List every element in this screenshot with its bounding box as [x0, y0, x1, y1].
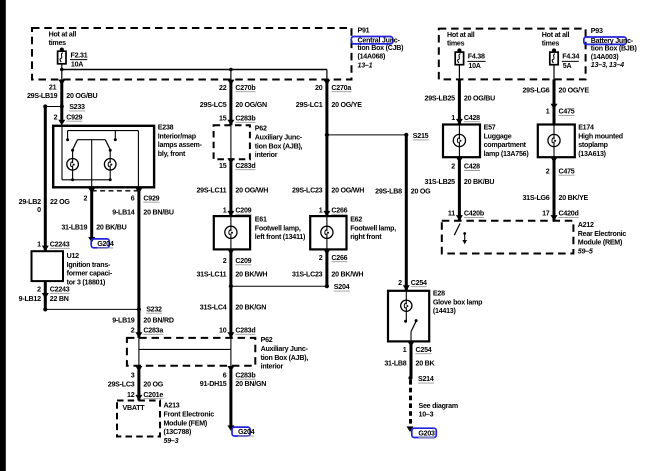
- svg-text:C2243: C2243: [50, 240, 70, 248]
- svg-text:12: 12: [127, 391, 135, 399]
- svg-text:VBATT: VBATT: [123, 404, 146, 412]
- svg-text:29S-LB19: 29S-LB19: [27, 92, 58, 100]
- connector C283d pin 15: [219, 158, 255, 170]
- svg-text:Auxiliary Junc-: Auxiliary Junc-: [255, 134, 303, 142]
- connector C201e pin 12: [127, 391, 163, 401]
- svg-text:A213: A213: [164, 402, 180, 410]
- svg-text:2: 2: [398, 279, 402, 287]
- svg-text:21: 21: [49, 84, 57, 92]
- svg-text:C283b: C283b: [235, 371, 256, 379]
- svg-text:20 OG/WH: 20 OG/WH: [331, 186, 364, 194]
- lamp E62 footwell lamp right front box: [310, 216, 346, 249]
- splice S215 wire to glove box branch: [325, 132, 429, 140]
- svg-text:Footwell lamp,: Footwell lamp,: [350, 224, 396, 232]
- dashed continuation wire to G203: [409, 380, 412, 426]
- svg-text:compartment: compartment: [484, 141, 527, 149]
- svg-text:15: 15: [219, 114, 227, 122]
- svg-text:Footwell lamp,: Footwell lamp,: [255, 224, 301, 232]
- svg-text:20 OG/YE: 20 OG/YE: [331, 101, 362, 109]
- svg-text:times: times: [542, 40, 560, 48]
- svg-text:3: 3: [131, 371, 135, 379]
- module A212 Rear Electronic Module dashed box: [442, 221, 574, 254]
- svg-text:interior: interior: [255, 151, 278, 159]
- svg-text:9-LB12: 9-LB12: [19, 295, 41, 303]
- pin 2 of E238: [83, 188, 95, 202]
- svg-text:C283d: C283d: [235, 162, 255, 170]
- svg-text:22 BN: 22 BN: [50, 295, 69, 303]
- svg-text:bly, front: bly, front: [158, 150, 186, 158]
- connector C929 pin 2 (E238 entry): [54, 113, 83, 125]
- label E57 Luggage compartment lamp: [484, 124, 530, 158]
- label P62 Auxiliary Junction Box lower: [261, 336, 309, 370]
- svg-text:20 OG/GN: 20 OG/GN: [235, 101, 267, 109]
- svg-text:20 OG/WH: 20 OG/WH: [235, 186, 268, 194]
- wire 29S-LC1 20 OG/YE: [296, 80, 362, 216]
- svg-text:P62: P62: [255, 125, 267, 133]
- bus wire inside CJB: [62, 69, 327, 71]
- A212 internal switch for luggage lamp: [454, 224, 460, 236]
- svg-text:1: 1: [546, 108, 550, 116]
- svg-text:29-LB2: 29-LB2: [19, 198, 41, 206]
- label A213 Front Electronic Module FEM: [164, 402, 215, 445]
- svg-text:C201e: C201e: [143, 391, 163, 399]
- wire 29S-LB25 20 OG/BU: [425, 79, 496, 124]
- connector C254 pin 2: [398, 279, 427, 291]
- svg-text:29S-LC5: 29S-LC5: [200, 101, 227, 109]
- connector C266 pin 1: [319, 206, 348, 216]
- E238 common bar and center wire to pin 2: [78, 140, 106, 188]
- svg-text:20 OG/YE: 20 OG/YE: [559, 86, 590, 94]
- wire 91-DH15 20 BN/GN: [200, 366, 266, 426]
- label P62 Auxiliary Junction Box upper: [255, 125, 303, 159]
- svg-text:S232: S232: [146, 305, 162, 313]
- svg-text:10–3: 10–3: [419, 411, 434, 419]
- wire 31S-LB25 20 BK/BU: [425, 157, 495, 221]
- E238 switch contact right: [114, 131, 117, 142]
- svg-text:31S-LC23: 31S-LC23: [292, 270, 323, 278]
- splice S232: [137, 305, 162, 313]
- fuse F4.38 10A: [447, 31, 486, 70]
- svg-text:Hot at all: Hot at all: [447, 31, 475, 39]
- svg-text:1: 1: [451, 114, 455, 122]
- svg-text:E61: E61: [255, 216, 267, 224]
- svg-text:P93: P93: [591, 27, 603, 35]
- label E28 Glove box lamp: [433, 290, 483, 316]
- E238 switch contact left: [66, 131, 69, 142]
- svg-text:right front: right front: [350, 233, 382, 241]
- svg-text:tion Box (BJB): tion Box (BJB): [591, 45, 638, 53]
- wire 9-LB14 20 BN/BU from E238 pin 6: [112, 187, 174, 338]
- svg-text:lamp (13A756): lamp (13A756): [484, 150, 530, 158]
- wire from fuse F2.31 to bus junction: [61, 63, 63, 79]
- svg-text:29S-LC1: 29S-LC1: [296, 101, 323, 109]
- wire drop to pin 20: [326, 70, 328, 81]
- connector C929 dashed boundary under E238: [92, 190, 142, 192]
- svg-text:59–3: 59–3: [164, 437, 179, 445]
- svg-text:1: 1: [319, 206, 323, 214]
- svg-text:C475: C475: [559, 167, 575, 175]
- svg-text:31S-LC11: 31S-LC11: [196, 270, 226, 278]
- node bus junction to pin 22: [229, 68, 233, 72]
- pin 20 of CJB connector C270a: [315, 80, 351, 92]
- svg-text:C283d: C283d: [235, 326, 255, 334]
- lamp E28 glove box lamp with switch: [388, 291, 429, 342]
- connector C420d pin 17: [542, 210, 578, 221]
- svg-text:U12: U12: [67, 252, 80, 260]
- svg-text:E62: E62: [350, 216, 362, 224]
- splice S233: [43, 103, 85, 111]
- svg-text:1: 1: [403, 346, 407, 354]
- svg-text:C254: C254: [411, 279, 427, 287]
- ground G204 (E238): [88, 237, 114, 248]
- svg-text:20 BK/BU: 20 BK/BU: [464, 178, 494, 186]
- module A213 Front Electronic Module dashed box with VBATT: [117, 401, 160, 437]
- svg-text:9-LB14: 9-LB14: [112, 209, 134, 217]
- svg-text:20 BK/WH: 20 BK/WH: [331, 270, 363, 278]
- svg-text:59–5: 59–5: [578, 248, 594, 256]
- wire from U12 to splice S232: [43, 307, 139, 311]
- svg-text:C254: C254: [416, 346, 432, 354]
- junction box P62 Auxiliary Junction Box interior (upper) dashed outline: [214, 125, 250, 159]
- svg-text:Glove box lamp: Glove box lamp: [433, 298, 483, 306]
- svg-text:2: 2: [223, 257, 227, 265]
- junction box P91 Central Junction Box (CJB) dashed outline: [32, 28, 352, 80]
- ground G203: [407, 426, 437, 437]
- svg-text:tor 3 (18801): tor 3 (18801): [67, 278, 106, 286]
- svg-text:20 BK/BU: 20 BK/BU: [96, 223, 126, 231]
- svg-text:C266: C266: [331, 206, 347, 214]
- svg-text:13–3, 13–4: 13–3, 13–4: [591, 61, 624, 69]
- svg-text:10A: 10A: [468, 62, 480, 70]
- svg-text:20 BK/GN: 20 BK/GN: [235, 303, 266, 311]
- svg-text:(14A068): (14A068): [358, 53, 386, 61]
- left black border bar: [0, 0, 6, 471]
- svg-text:31S-LG6: 31S-LG6: [522, 194, 549, 202]
- label A212 Rear Electronic Module REM: [578, 221, 627, 255]
- note see diagram 10-3: [419, 402, 458, 419]
- svg-text:tion Box (CJB): tion Box (CJB): [358, 44, 405, 52]
- A212 internal control arrow: [462, 232, 467, 244]
- wire 29S-LB8 20 OG: [375, 135, 431, 291]
- svg-text:1: 1: [223, 206, 227, 214]
- connector C283a pin 2: [131, 326, 164, 338]
- connector C475 pin 2: [546, 157, 575, 175]
- splice S214: [408, 375, 434, 383]
- svg-text:29S-LB8: 29S-LB8: [375, 188, 402, 196]
- svg-text:F2.31: F2.31: [71, 51, 88, 59]
- svg-text:20 BN/RD: 20 BN/RD: [143, 317, 173, 325]
- lamp E61 footwell lamp left front box: [214, 216, 250, 249]
- svg-text:tion Box (AJB),: tion Box (AJB),: [255, 142, 303, 150]
- svg-text:interior: interior: [261, 363, 284, 371]
- label U12 ignition transformer capacitor 3: [67, 252, 113, 286]
- svg-text:6: 6: [131, 194, 135, 202]
- svg-text:20 BK: 20 BK: [416, 359, 436, 367]
- svg-text:2: 2: [546, 167, 550, 175]
- svg-text:E28: E28: [433, 290, 445, 298]
- svg-text:31-LB8: 31-LB8: [384, 359, 406, 367]
- svg-text:S233: S233: [69, 103, 85, 111]
- svg-text:Module (FEM): Module (FEM): [164, 419, 208, 427]
- lamp E57 luggage compartment lamp box: [443, 125, 480, 158]
- svg-text:2: 2: [83, 194, 87, 202]
- svg-text:Luggage: Luggage: [484, 132, 512, 140]
- svg-text:2: 2: [451, 163, 455, 171]
- connector C2243 pin 1: [37, 240, 70, 251]
- pin 6 of E238 connector C929: [131, 188, 160, 202]
- svg-text:C420d: C420d: [559, 210, 579, 218]
- map lamp right in E238: [104, 150, 116, 181]
- connector C209 pin 2: [223, 249, 252, 265]
- capacitor U12 ignition transformer capacitor box: [32, 251, 64, 281]
- svg-text:C929: C929: [143, 194, 159, 202]
- label E238 interior/map lamps assembly front: [158, 124, 203, 158]
- svg-text:0: 0: [37, 206, 41, 214]
- svg-text:(13A613): (13A613): [578, 150, 606, 158]
- wire 31S-LC11 20 BK/WH: [196, 249, 267, 338]
- svg-text:Rear Electronic: Rear Electronic: [578, 230, 627, 238]
- svg-text:G203: G203: [418, 430, 435, 438]
- svg-text:(14A003): (14A003): [591, 53, 619, 61]
- svg-text:2: 2: [319, 254, 323, 262]
- svg-text:C283b: C283b: [235, 114, 256, 122]
- connector C2243 pin 2: [37, 285, 70, 298]
- label E62 Footwell lamp right front: [350, 216, 396, 242]
- junction box P62 Auxiliary Junction Box interior (lower) dashed outline: [127, 338, 255, 366]
- svg-text:Module (REM): Module (REM): [578, 239, 623, 247]
- svg-text:13–1: 13–1: [358, 61, 373, 69]
- E238 internal feed wire left side and bottom rail: [62, 126, 110, 180]
- svg-text:20 OG/BU: 20 OG/BU: [66, 92, 97, 100]
- svg-text:C475: C475: [559, 108, 575, 116]
- svg-text:A212: A212: [578, 221, 594, 229]
- svg-text:G204: G204: [238, 428, 255, 436]
- svg-text:20 BN/GN: 20 BN/GN: [235, 380, 266, 388]
- wire 29S-LC3 20 OG: [108, 366, 164, 401]
- svg-text:20 OG/BU: 20 OG/BU: [464, 94, 495, 102]
- svg-text:(14413): (14413): [433, 307, 457, 315]
- connector C254 pin 1: [403, 341, 432, 353]
- svg-text:C266: C266: [331, 254, 347, 262]
- svg-text:29S-LG6: 29S-LG6: [522, 86, 549, 94]
- connector C475 pin 1: [546, 104, 575, 116]
- svg-text:2: 2: [54, 113, 58, 121]
- svg-text:2: 2: [131, 326, 135, 334]
- connector C428 pin 2: [451, 157, 480, 171]
- svg-text:C929: C929: [66, 113, 82, 121]
- wire 31-LB19 20 BK/BU from E238 pin 2: [61, 187, 126, 237]
- E238 switch arm left: [71, 140, 77, 152]
- wire 29S-LC5 20 OG/GN: [200, 80, 267, 125]
- lamp E174 high mounted stoplamp box: [538, 125, 575, 158]
- E238 internal top rail to pin 6: [68, 131, 139, 188]
- svg-text:91-DH15: 91-DH15: [200, 380, 227, 388]
- wire 31S-LG6 20 BK/YE: [522, 157, 588, 221]
- svg-text:S215: S215: [413, 132, 429, 140]
- svg-text:C270b: C270b: [235, 84, 256, 92]
- label P91 Central Junction Box: [351, 27, 404, 70]
- fuse F4.34 5A: [542, 31, 580, 70]
- svg-text:9-LB19: 9-LB19: [112, 317, 134, 325]
- svg-text:S204: S204: [334, 283, 350, 291]
- svg-text:6: 6: [223, 371, 227, 379]
- svg-text:Auxiliary Junc-: Auxiliary Junc-: [261, 345, 309, 353]
- svg-text:31-LB19: 31-LB19: [61, 223, 87, 231]
- ground G204 (P62): [227, 425, 254, 436]
- P62 lower internal wires: [139, 338, 231, 366]
- svg-text:C2243: C2243: [50, 285, 70, 293]
- wire 9-LB12 22 BN: [19, 281, 69, 309]
- svg-text:5A: 5A: [563, 62, 572, 70]
- svg-text:High mounted: High mounted: [578, 132, 623, 140]
- svg-text:Ignition trans-: Ignition trans-: [67, 261, 111, 269]
- node fuse output junction: [60, 68, 64, 72]
- svg-text:E238: E238: [158, 124, 174, 132]
- svg-text:Hot at all: Hot at all: [542, 31, 570, 39]
- svg-text:20: 20: [315, 84, 323, 92]
- svg-text:C209: C209: [235, 257, 251, 265]
- svg-text:20 OG: 20 OG: [411, 188, 431, 196]
- svg-text:times: times: [447, 40, 465, 48]
- pin 22 of CJB connector C270b: [219, 80, 256, 92]
- svg-text:C428: C428: [464, 163, 480, 171]
- svg-text:left front (13411): left front (13411): [255, 233, 306, 241]
- label E174 High mounted stoplamp: [578, 124, 623, 158]
- E238 switch arm right: [105, 140, 111, 152]
- svg-text:22: 22: [219, 84, 227, 92]
- svg-text:See diagram: See diagram: [419, 402, 458, 410]
- connector C266 pin 2: [319, 249, 348, 261]
- connector C209 pin 1: [223, 206, 252, 216]
- svg-text:31S-LC4: 31S-LC4: [200, 303, 227, 311]
- splice S204 wire: [231, 283, 350, 291]
- label E61 Footwell lamp left front: [255, 216, 306, 242]
- connector C428 pin 1: [451, 114, 480, 125]
- svg-text:20 BN/BU: 20 BN/BU: [143, 209, 173, 217]
- svg-text:Hot at all: Hot at all: [49, 30, 77, 38]
- wire 29S-LC11 20 OG/WH: [196, 159, 268, 216]
- lamp assembly E238 interior/map lamps box: [53, 126, 154, 188]
- svg-text:S214: S214: [418, 375, 434, 383]
- wire from fuse F4.34 to BJB edge: [553, 64, 555, 79]
- svg-text:11: 11: [448, 210, 455, 218]
- fuse F2.31 10A: [49, 30, 88, 68]
- svg-text:29S-LB25: 29S-LB25: [425, 94, 456, 102]
- svg-text:F4.38: F4.38: [468, 53, 485, 61]
- svg-text:15: 15: [219, 162, 227, 170]
- svg-text:lamps assem-: lamps assem-: [158, 141, 203, 149]
- svg-text:former capaci-: former capaci-: [67, 270, 113, 278]
- wire 29S-LG6 20 OG/YE: [522, 79, 589, 124]
- label P93 Battery Junction Box: [584, 27, 638, 69]
- svg-text:G204: G204: [97, 240, 114, 248]
- node junction to splice S204: [229, 284, 233, 288]
- svg-text:C209: C209: [235, 206, 251, 214]
- svg-text:29S-LC3: 29S-LC3: [108, 380, 135, 388]
- svg-text:20 BK/WH: 20 BK/WH: [235, 270, 267, 278]
- svg-text:2: 2: [37, 285, 41, 293]
- svg-text:(13C788): (13C788): [164, 428, 192, 436]
- svg-text:tion Box (AJB),: tion Box (AJB),: [261, 354, 309, 362]
- svg-text:Front Electronic: Front Electronic: [164, 411, 215, 419]
- wire drop to pin 22: [230, 70, 232, 81]
- svg-text:22 OG: 22 OG: [50, 198, 70, 206]
- junction box P93 Battery Junction Box dashed outline: [439, 29, 586, 80]
- svg-text:P91: P91: [358, 27, 370, 35]
- wire 31S-LC23 20 BK/WH: [292, 249, 363, 286]
- connector C283b pin 15: [219, 114, 256, 125]
- connector C420b pin 11: [448, 210, 485, 221]
- map lamp left in E238: [67, 150, 79, 181]
- svg-text:29S-LC11: 29S-LC11: [196, 186, 226, 194]
- wire 29S-LB19 20 OG/BU: [27, 79, 98, 120]
- svg-text:E57: E57: [484, 124, 496, 132]
- wire from fuse F4.38 to BJB edge: [458, 64, 460, 79]
- svg-text:31S-LB25: 31S-LB25: [425, 178, 456, 186]
- svg-text:20 OG: 20 OG: [143, 380, 163, 388]
- wire 31-LB8 20 BK: [384, 341, 435, 378]
- svg-text:1: 1: [37, 240, 41, 248]
- svg-text:Interior/map: Interior/map: [158, 132, 197, 140]
- wire 29-LB20 22 OG from splice S233: [19, 107, 71, 252]
- svg-text:C283a: C283a: [143, 326, 163, 334]
- svg-text:C428: C428: [464, 114, 480, 122]
- svg-text:E174: E174: [578, 124, 594, 132]
- svg-text:times: times: [49, 39, 67, 47]
- svg-text:10A: 10A: [71, 61, 83, 69]
- svg-text:29S-LC23: 29S-LC23: [292, 186, 323, 194]
- svg-text:C270a: C270a: [331, 84, 351, 92]
- svg-text:C420b: C420b: [464, 210, 485, 218]
- connector C283d pin 10: [219, 326, 255, 338]
- svg-text:F4.34: F4.34: [562, 53, 579, 61]
- P62 upper internal wire: [230, 125, 232, 159]
- svg-text:P62: P62: [261, 336, 273, 344]
- svg-text:10: 10: [219, 326, 227, 334]
- svg-text:20 BK/YE: 20 BK/YE: [559, 194, 589, 202]
- svg-text:stoplamp: stoplamp: [578, 141, 608, 149]
- svg-text:17: 17: [542, 210, 550, 218]
